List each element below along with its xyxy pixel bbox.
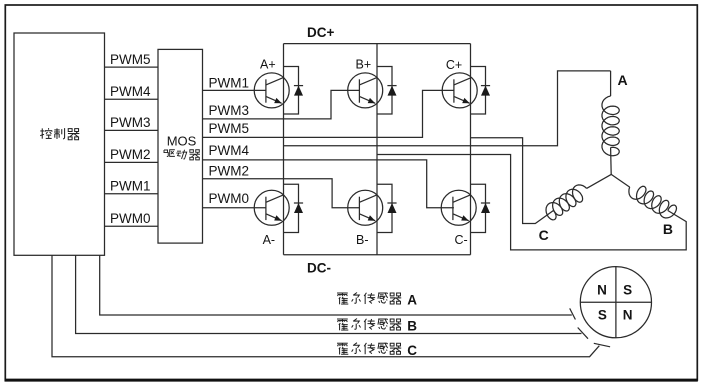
wire PWM5 MOS driver to Q5 base <box>203 90 454 137</box>
svg-text:N: N <box>597 283 607 298</box>
wire PWM3 controller to MOS driver <box>105 115 159 130</box>
svg-text:PWM0: PWM0 <box>209 191 250 206</box>
wire hall sensor B to controller <box>76 255 582 333</box>
wire PWM1 controller to MOS driver <box>105 179 159 194</box>
wire phase A output to winding A <box>284 71 611 146</box>
svg-text:B-: B- <box>356 233 369 247</box>
svg-text:N: N <box>623 308 633 323</box>
hall rotor magnet disc N/S <box>580 267 651 338</box>
hall sensor B probe <box>578 328 588 339</box>
svg-text:S: S <box>598 308 607 323</box>
controller U1 控制器 <box>14 33 105 255</box>
svg-text:S: S <box>623 283 632 298</box>
svg-text:PWM2: PWM2 <box>110 147 151 162</box>
svg-text:B: B <box>407 319 417 334</box>
svg-text:PWM1: PWM1 <box>110 179 151 194</box>
DC- rail <box>284 255 471 276</box>
svg-text:A: A <box>407 293 417 308</box>
svg-text:PWM5: PWM5 <box>209 121 250 136</box>
diode D3 freewheeling across Q3 <box>377 67 397 115</box>
svg-text:PWM5: PWM5 <box>110 52 151 67</box>
wire hall sensor C to controller <box>52 255 599 357</box>
DC+ rail <box>284 25 471 44</box>
svg-text:A-: A- <box>263 233 276 247</box>
node star point (motor neutral) <box>610 174 612 175</box>
svg-text:C: C <box>539 227 549 243</box>
svg-text:A+: A+ <box>260 58 276 72</box>
hall sensor C probe <box>594 343 610 347</box>
svg-text:MOS: MOS <box>167 133 197 148</box>
svg-text:B: B <box>663 221 673 237</box>
svg-text:C: C <box>407 343 417 358</box>
wire PWM2 MOS driver to Q4 base <box>203 163 360 207</box>
diode D5 freewheeling across Q5 <box>471 67 491 115</box>
transistor Q2 (A-) <box>254 190 289 247</box>
svg-text:PWM4: PWM4 <box>209 143 250 158</box>
wire PWM3 MOS driver to Q3 base <box>203 90 360 119</box>
winding C (motor phase C coil) <box>539 174 612 243</box>
diode D1 freewheeling across Q1 <box>284 67 304 115</box>
svg-text:PWM3: PWM3 <box>110 115 151 130</box>
svg-text:B+: B+ <box>356 58 372 72</box>
svg-text:C+: C+ <box>446 58 462 72</box>
transistor Q3 (B+) <box>348 58 383 108</box>
wire hall sensor A to controller <box>100 255 572 315</box>
wire PWM1 MOS driver to Q1 base <box>203 75 266 90</box>
wire PWM2 controller to MOS driver <box>105 147 159 162</box>
svg-text:C-: C- <box>455 233 468 247</box>
diode D4 freewheeling across Q4 <box>377 184 397 232</box>
transistor Q5 (C+) <box>442 58 477 108</box>
winding B (motor phase B coil) <box>611 174 676 237</box>
svg-text:DC+: DC+ <box>307 25 334 40</box>
wire PWM0 controller to MOS driver <box>105 211 159 226</box>
transistor Q1 (A+) <box>254 58 289 108</box>
svg-text:PWM3: PWM3 <box>209 103 250 118</box>
svg-text:PWM1: PWM1 <box>209 75 250 90</box>
winding A (motor phase A coil) <box>602 71 628 174</box>
transistor Q4 (B-) <box>348 190 383 247</box>
wire PWM4 controller to MOS driver <box>105 84 159 99</box>
svg-text:PWM2: PWM2 <box>209 163 250 178</box>
hall sensor A probe <box>570 308 576 319</box>
svg-text:DC-: DC- <box>307 260 331 275</box>
diode D6 freewheeling across Q6 <box>471 184 491 232</box>
transistor Q6 (C-) <box>441 190 476 247</box>
svg-text:A: A <box>618 72 628 88</box>
wire leg A (phase A node) <box>283 44 285 255</box>
diode D2 freewheeling across Q2 <box>284 184 304 232</box>
wire PWM4 MOS driver to Q6 base <box>203 143 454 208</box>
wire PWM5 controller to MOS driver <box>105 52 159 67</box>
MOS driver U2 驱动器 <box>158 49 203 243</box>
wire leg B (phase B node) <box>376 44 378 255</box>
wire leg C (phase C node) <box>470 44 472 255</box>
svg-text:PWM4: PWM4 <box>110 84 151 99</box>
wire PWM0 MOS driver to Q2 base <box>203 191 266 208</box>
wire phase B output to winding B <box>377 155 686 250</box>
wire phase C output to winding C <box>471 138 554 224</box>
svg-text:PWM0: PWM0 <box>110 211 151 226</box>
